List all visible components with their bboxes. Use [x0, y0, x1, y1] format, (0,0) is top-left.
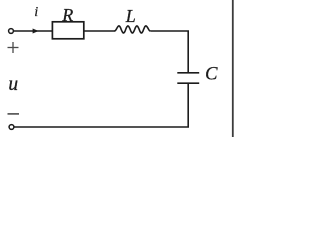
capacitor C bottom plate: [177, 82, 199, 84]
plus sign: [8, 42, 19, 53]
terminal bottom-left: [9, 125, 14, 130]
resistor R: [52, 22, 83, 39]
svg-text:R: R: [61, 5, 73, 25]
svg-text:L: L: [125, 6, 136, 26]
wire terminal to resistor: [14, 30, 52, 32]
right border line: [232, 0, 234, 137]
capacitor C top plate: [177, 72, 199, 74]
svg-text:C: C: [205, 65, 218, 85]
svg-text:u: u: [8, 74, 18, 95]
inductor L: [115, 26, 151, 33]
wire inductor to top-right corner, down to capacitor: [150, 31, 188, 72]
current arrow: [33, 29, 39, 34]
wire resistor to inductor: [84, 30, 115, 32]
wire capacitor to bottom-right corner and bottom wire: [14, 84, 188, 127]
svg-text:i: i: [34, 4, 38, 19]
terminal top-left: [9, 29, 14, 34]
minus sign: [8, 113, 20, 115]
